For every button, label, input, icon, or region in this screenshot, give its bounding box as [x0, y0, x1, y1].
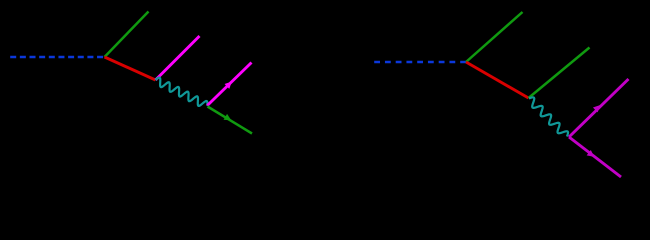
left diagram: green parton line from first vertex going up-right — [105, 12, 149, 58]
right diagram: magenta line with mid arrow from third vertex going up-right — [569, 79, 629, 137]
left diagram: magenta parton line from second vertex going up-right — [156, 36, 200, 80]
left diagram: teal wavy boson line from second vertex down-right to third vertex — [156, 78, 208, 106]
right diagram: teal wavy boson line from second vertex down-right to third vertex — [529, 97, 568, 136]
left diagram: green line with mid arrow from third vertex going down-right — [208, 107, 253, 134]
right diagram: green parton line from second vertex going up-right — [529, 48, 590, 99]
right diagram: red parton line from first vertex down-right to second vertex — [466, 62, 529, 98]
right diagram: magenta line with mid arrow from third vertex going down-right — [569, 137, 621, 177]
left diagram: incoming dashed blue propagator — [10, 56, 104, 58]
left diagram: magenta line with mid arrow from third vertex going up-right — [207, 63, 251, 106]
right diagram: green parton line from first vertex going up-right — [466, 12, 523, 62]
right diagram: incoming dashed blue propagator — [374, 61, 466, 63]
left diagram: red parton line from first vertex down-right to second vertex — [105, 57, 156, 80]
